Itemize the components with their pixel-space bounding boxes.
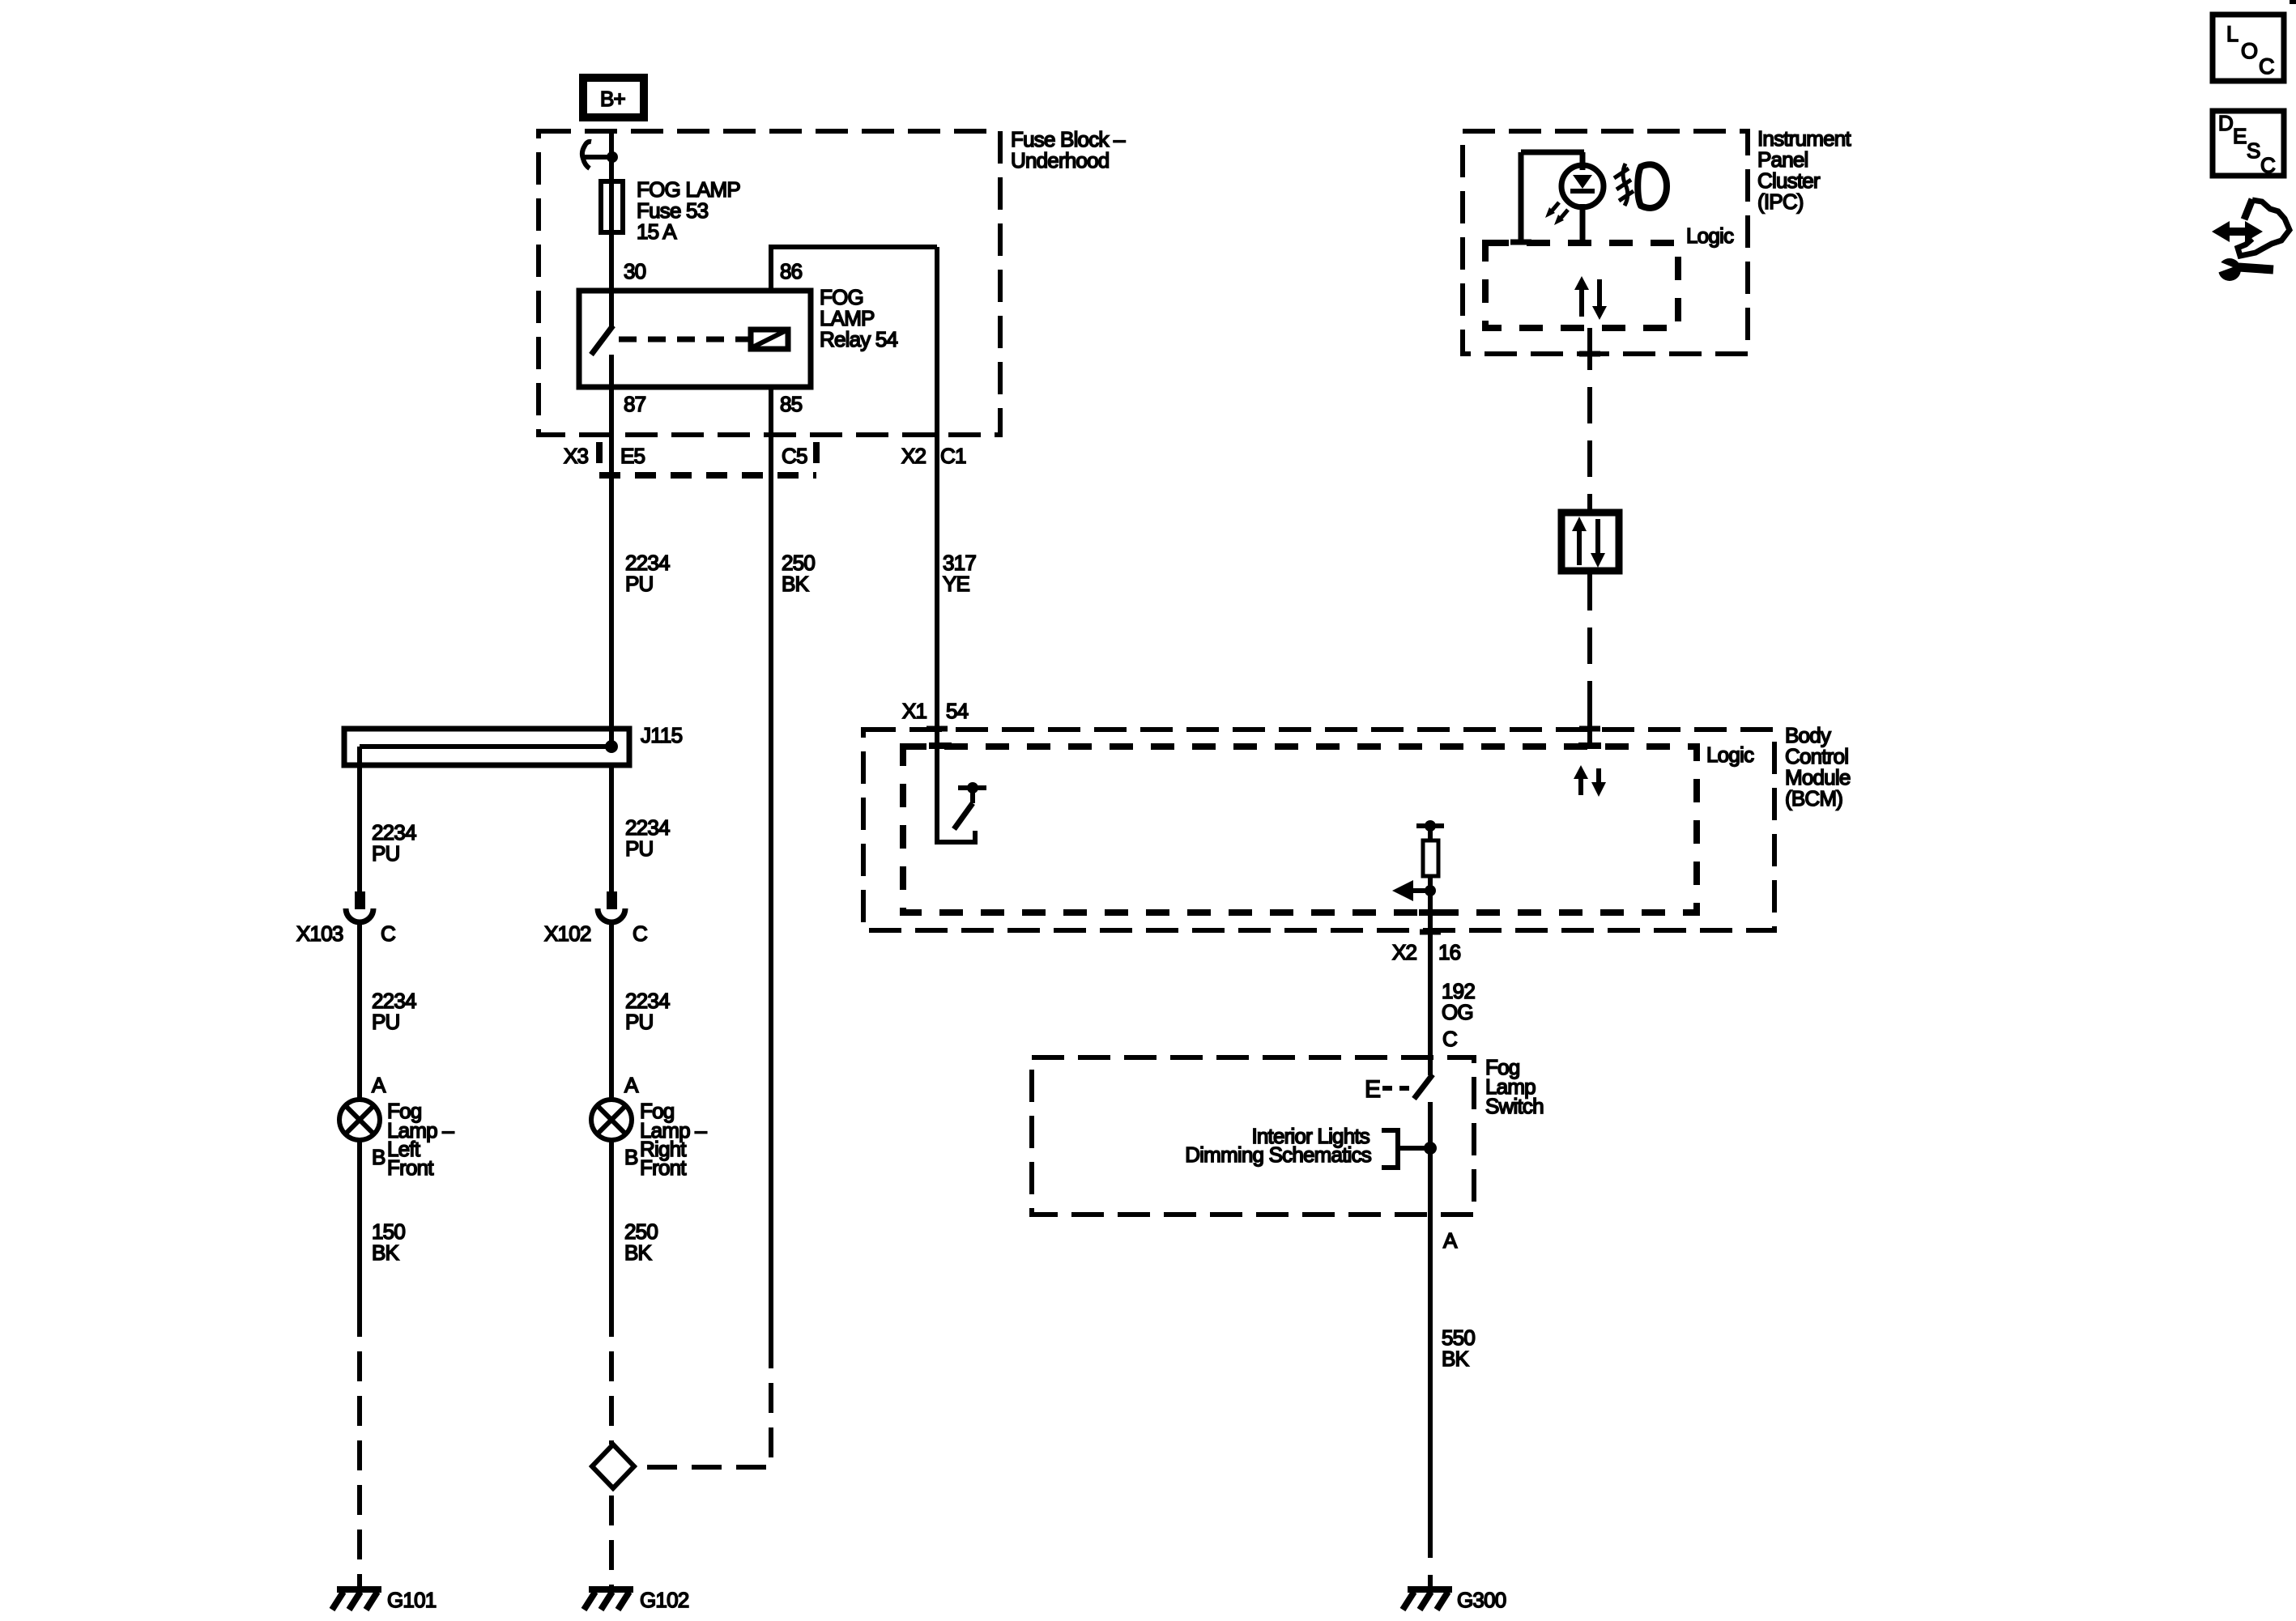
splice J115 — [344, 729, 629, 765]
label Fog Lamp Switch — [1485, 1055, 1544, 1118]
label 317 YE — [943, 551, 976, 596]
BCM logic arrows — [1574, 765, 1606, 797]
tick serial at BCM top — [1579, 726, 1600, 732]
svg-text:E: E — [1365, 1076, 1380, 1103]
fuse FOG LAMP Fuse 53 15A — [601, 181, 623, 232]
svg-text:B: B — [372, 1145, 386, 1169]
svg-text:C1: C1 — [940, 444, 966, 468]
svg-text:X2: X2 — [901, 444, 926, 468]
svg-text:O: O — [2241, 39, 2257, 63]
wire right branch to X102 — [609, 765, 614, 891]
svg-text:X1: X1 — [902, 699, 927, 723]
serial data wire upper — [1587, 328, 1592, 370]
BCM logic dashed box — [903, 747, 1697, 913]
svg-text:15 A: 15 A — [637, 219, 677, 244]
svg-text:G102: G102 — [640, 1588, 689, 1612]
DESC legend box — [2213, 111, 2284, 177]
label X102 C — [544, 921, 647, 946]
BCM resistor stem — [1428, 826, 1433, 839]
tick X1 wire at BCM logic top — [929, 742, 952, 749]
svg-text:X3: X3 — [564, 444, 589, 468]
tick at IPC outer bottom — [1579, 351, 1600, 357]
serial data symbol box — [1561, 513, 1619, 571]
connector X102 — [598, 891, 625, 922]
wire 2234 PU relay 87 to J115 — [609, 389, 614, 747]
label X1 54 — [902, 699, 969, 723]
svg-text:G101: G101 — [387, 1588, 437, 1612]
svg-text:BK: BK — [1442, 1347, 1470, 1371]
svg-text:86: 86 — [780, 259, 803, 283]
svg-text:30: 30 — [624, 259, 646, 283]
svg-text:85: 85 — [780, 392, 803, 416]
svg-text:PU: PU — [625, 836, 654, 861]
IPC left wire — [1519, 152, 1524, 242]
LOC legend box — [2213, 15, 2284, 81]
ground stub G300 — [1428, 1575, 1433, 1588]
wire 317 YE from C1 to BCM X1-54 — [935, 247, 939, 729]
junction dot J115 — [605, 740, 618, 753]
label FOG LAMP Relay 54 — [820, 285, 898, 351]
svg-text:X102: X102 — [544, 921, 591, 946]
svg-text:PU: PU — [372, 1010, 400, 1034]
BCM resistor terminal bar — [1416, 823, 1444, 828]
label Fog Lamp Left Front — [387, 1099, 454, 1180]
label Body Control Module (BCM) — [1785, 723, 1851, 810]
IPC logic dashed box — [1485, 243, 1678, 328]
LED indicator wire upper — [1580, 152, 1586, 170]
junction dot interior lights tap — [1424, 1142, 1437, 1155]
svg-text:Logic: Logic — [1706, 742, 1754, 767]
svg-text:Switch: Switch — [1485, 1094, 1544, 1118]
wire 250 BK relay 85 down — [769, 389, 773, 1338]
label 2234 PU — [625, 551, 670, 596]
BCM switch pivot dot — [967, 782, 978, 793]
label FOG LAMP Fuse 53 15 A — [637, 177, 740, 244]
svg-text:PU: PU — [372, 841, 400, 866]
page corner artifact — [2290, 0, 2296, 4]
junction dot at arrow — [1425, 885, 1436, 896]
serial data arrows — [1572, 517, 1605, 568]
interior lights bracket — [1382, 1130, 1430, 1168]
BCM switch stem — [970, 788, 975, 803]
BCM switch pivot bar — [958, 785, 986, 790]
svg-text:A: A — [372, 1073, 386, 1097]
svg-text:Front: Front — [640, 1155, 687, 1180]
svg-text:C: C — [2260, 153, 2275, 177]
diamond splice — [592, 1444, 634, 1488]
wire resistor down — [1428, 876, 1433, 1057]
BCM switch input wire hook — [937, 729, 975, 842]
service icon wrench — [2215, 258, 2273, 281]
label 2234 PU right — [625, 815, 670, 861]
BCM outer dashed box — [863, 730, 1774, 930]
svg-text:87: 87 — [624, 392, 646, 416]
svg-text:C: C — [2259, 54, 2274, 79]
relay actuator dashed link — [619, 337, 748, 342]
label Interior Lights Dimming Schematics — [1185, 1124, 1372, 1167]
wire X103 to left fog lamp — [357, 922, 362, 1100]
svg-text:G300: G300 — [1457, 1588, 1506, 1612]
label X2 16 — [1392, 940, 1461, 964]
tick X2 wire at BCM bottom — [1420, 930, 1441, 935]
svg-text:Dimming Schematics: Dimming Schematics — [1185, 1142, 1372, 1167]
svg-text:J115: J115 — [641, 723, 683, 747]
svg-text:A: A — [1443, 1228, 1458, 1253]
B+ battery feed symbol — [583, 78, 644, 117]
LED diode triangle — [1573, 175, 1592, 189]
relay coil — [751, 330, 788, 349]
tick left wire at logic top — [1510, 240, 1531, 245]
svg-text:PU: PU — [625, 1010, 654, 1034]
wire B+ to fuse block — [609, 131, 614, 290]
svg-text:X2: X2 — [1392, 940, 1417, 964]
svg-text:Front: Front — [387, 1155, 434, 1180]
svg-text:C: C — [381, 921, 395, 946]
svg-text:E5: E5 — [620, 444, 645, 468]
label 2234 PU left lower — [372, 989, 416, 1034]
label 192 OG — [1442, 979, 1475, 1024]
svg-text:PU: PU — [625, 572, 654, 596]
E dashed link — [1382, 1086, 1412, 1091]
serial data dashed wire lower — [1587, 574, 1592, 713]
wire lamp left down — [357, 1140, 362, 1337]
svg-text:OG: OG — [1442, 1000, 1473, 1024]
wire 250 BK dashed to diamond splice — [637, 1338, 771, 1467]
IPC outer dashed box — [1463, 131, 1748, 354]
tick X2 wire at BCM logic bottom — [1419, 909, 1442, 916]
LED wire lower — [1580, 204, 1586, 242]
label Instrument Panel Cluster (IPC) — [1757, 126, 1851, 214]
lamp Fog Lamp Right Front — [591, 1100, 632, 1140]
connector X103 — [346, 891, 373, 922]
ground G300 — [1403, 1589, 1452, 1610]
svg-text:BK: BK — [782, 572, 810, 596]
fog switch lower wire 550 BK — [1428, 1102, 1433, 1558]
tick X1 wire at BCM top — [926, 726, 948, 732]
svg-text:(IPC): (IPC) — [1757, 189, 1804, 214]
fog switch contact stub — [1428, 1057, 1433, 1075]
svg-text:YE: YE — [943, 572, 970, 596]
relay switch contact — [591, 291, 613, 389]
service icon pointer outline — [2238, 199, 2290, 256]
relay box U54 — [579, 291, 811, 387]
LED indicator circle — [1561, 165, 1604, 207]
svg-text:BK: BK — [372, 1240, 400, 1265]
svg-text:B+: B+ — [600, 87, 625, 111]
resistor R — [1423, 840, 1438, 876]
label X103 C — [296, 921, 395, 946]
svg-text:Logic: Logic — [1686, 223, 1734, 248]
svg-text:(BCM): (BCM) — [1785, 786, 1842, 810]
svg-text:D: D — [2218, 111, 2233, 135]
svg-text:Underhood: Underhood — [1011, 148, 1109, 172]
fog lamp indicator icon — [1614, 164, 1667, 208]
svg-text:BK: BK — [624, 1240, 653, 1265]
dashed wire lamp right to diamond — [609, 1351, 614, 1444]
svg-text:L: L — [2226, 22, 2238, 46]
serial data dashed wire — [1587, 387, 1592, 509]
IPC top wire bar — [1521, 150, 1584, 155]
svg-text:E: E — [2233, 124, 2247, 148]
IPC logic arrows — [1574, 276, 1607, 320]
fog switch blade — [1414, 1074, 1433, 1099]
label 2234 PU left — [372, 820, 416, 866]
fuse block underhood dashed box — [539, 131, 1000, 435]
wire X102 to right fog lamp — [609, 922, 614, 1100]
BCM switch blade — [954, 803, 973, 829]
tick serial at BCM logic top — [1578, 742, 1601, 749]
dashed wire diamond to G102 — [609, 1495, 614, 1588]
svg-text:S: S — [2247, 138, 2260, 163]
svg-text:Relay 54: Relay 54 — [820, 327, 898, 351]
label 250 BK — [782, 551, 815, 596]
label 250 BK right — [624, 1219, 658, 1265]
dashed wire to G101 — [357, 1351, 362, 1588]
LED cathode bar — [1570, 189, 1595, 194]
svg-text:X103: X103 — [296, 921, 343, 946]
wire left branch to X103 — [357, 747, 362, 891]
label Fuse Block - Underhood — [1011, 127, 1126, 172]
label 150 BK — [372, 1219, 405, 1265]
label 550 BK — [1442, 1325, 1475, 1371]
ground G101 — [332, 1589, 381, 1610]
svg-text:C5: C5 — [782, 444, 807, 468]
svg-text:54: 54 — [946, 699, 969, 723]
connector box X3 E5-C5 — [599, 442, 816, 478]
BCM resistor terminal dot — [1425, 820, 1436, 832]
svg-text:16: 16 — [1438, 940, 1461, 964]
ground G102 — [584, 1589, 633, 1610]
ignition feed hook symbol — [582, 142, 618, 168]
label 2234 PU right lower — [625, 989, 670, 1034]
svg-text:C: C — [1442, 1027, 1457, 1051]
svg-text:B: B — [624, 1145, 638, 1169]
lamp Fog Lamp Left Front — [339, 1100, 380, 1140]
svg-text:A: A — [624, 1073, 639, 1097]
signal arrow left — [1392, 880, 1430, 901]
LED emission arrows — [1545, 202, 1568, 225]
wire lamp right down — [609, 1140, 614, 1337]
fog lamp switch dashed box — [1032, 1057, 1474, 1215]
service icon double arrow — [2212, 221, 2263, 242]
serial wire into BCM — [1587, 713, 1592, 747]
svg-text:C: C — [633, 921, 647, 946]
label Fog Lamp Right Front — [640, 1099, 707, 1180]
wire pin 86 up and over — [771, 247, 937, 291]
